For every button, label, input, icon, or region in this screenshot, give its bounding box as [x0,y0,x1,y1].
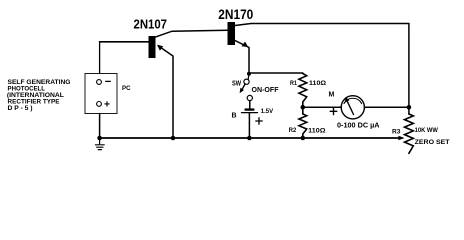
junction: R1/R2/meter node [301,105,306,110]
svg-text:R2: R2 [289,127,297,134]
ground rail wire [100,137,400,139]
svg-text:2N107: 2N107 [134,17,168,31]
svg-text:M: M [329,92,335,99]
wire: node to meter plus lead [303,106,341,108]
svg-text:ON-OFF: ON-OFF [252,87,280,94]
switch SW upper contact [244,79,249,84]
PC plus terminal [97,102,102,107]
junction: R2 to ground rail [301,136,306,141]
wire: node to switch [247,74,250,79]
Q1 collector wire to Q2 base [156,30,228,37]
rheostat R3 [405,114,414,153]
wire: PC plus terminal down to rail [99,114,101,139]
ground symbol [99,138,101,145]
Q2 emitter wire [235,41,249,75]
switch blade [241,84,245,91]
battery B [246,108,254,110]
wire: meter to right rail [364,106,409,108]
meter plus sign [330,108,337,115]
resistor R2 [299,107,307,138]
battery plus sign [256,118,262,124]
R3 wiper arrow [398,136,404,140]
svg-text:10K WW: 10K WW [415,127,438,134]
Q1 emitter arrow (PNP, pointing at bar) [157,45,163,51]
meter M 0-100 DC uA [341,96,364,119]
svg-text:R3: R3 [392,128,401,135]
svg-text:110Ω: 110Ω [308,128,325,135]
svg-text:PC: PC [122,85,131,92]
resistor R1 [299,74,307,108]
svg-text:2N170: 2N170 [218,6,253,22]
PC minus terminal [97,80,102,85]
wire: battery to ground rail [248,113,250,138]
Q2 emitter arrow (NPN, pointing away) [242,42,249,47]
svg-text:B: B [232,113,237,120]
wire: node to R1 top [249,72,303,74]
transistor Q1 2N107 base bar [149,36,156,58]
junction: meter / R3 node [407,105,412,110]
svg-text:110Ω: 110Ω [309,80,326,87]
meter needle [347,100,354,114]
svg-text:0-100 DC µA: 0-100 DC µA [337,123,380,130]
svg-text:ZERO SET: ZERO SET [415,139,451,146]
photocell PC [85,74,117,114]
svg-text:1.5V: 1.5V [261,108,274,115]
junction: PC / ground [97,136,102,141]
svg-text:R1: R1 [290,80,297,87]
junction: battery to rail [247,136,252,141]
wire: PC negative terminal up to Q1 base [99,42,101,74]
wire: switch to battery [249,101,251,108]
Q1 emitter wire [159,46,174,138]
meter scale arc [344,98,362,103]
switch SW lower contact [247,95,252,100]
transistor Q2 2N170 base bar [228,22,236,45]
svg-text:SW: SW [232,81,241,88]
junction: Q1 emitter to rail [171,136,176,141]
Q2 collector wire to top rail [235,24,409,115]
junction: Q2 emitter / SW / R1 node [247,72,251,76]
